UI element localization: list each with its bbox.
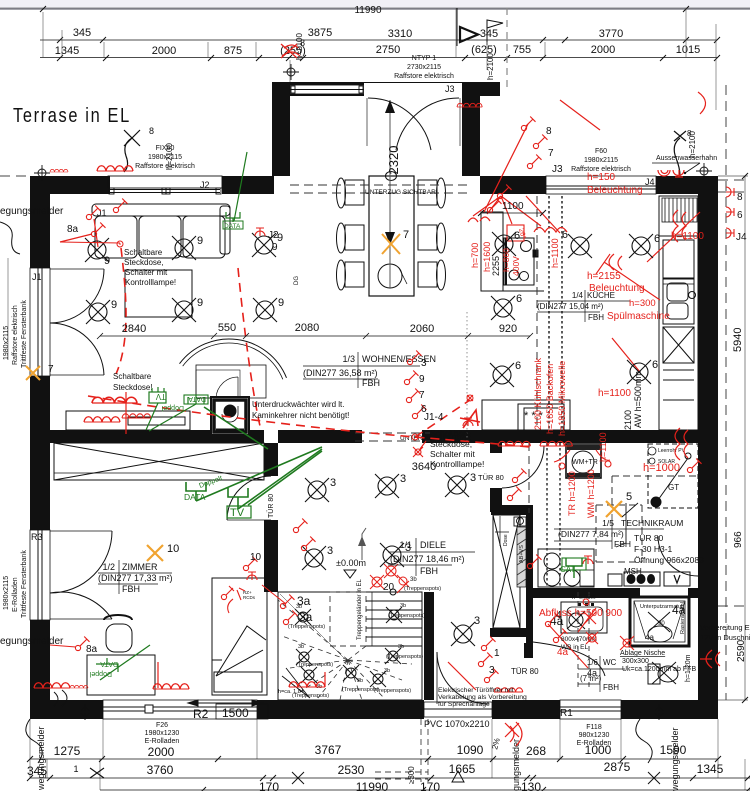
red symbol right bath	[700, 650, 720, 668]
svg-text:Doppel: Doppel	[161, 404, 184, 411]
bottom-right curve	[636, 719, 652, 763]
svg-text:Vorbereitung Einb: Vorbereitung Einb	[700, 623, 750, 632]
svg-text:h=2155: h=2155	[587, 271, 621, 282]
svg-text:h=2100: h=2100	[486, 53, 495, 80]
svg-text:6: 6	[652, 359, 658, 371]
green desk labels	[96, 645, 150, 680]
crosshair symbol left	[34, 165, 50, 181]
dining table	[369, 176, 414, 296]
red symbols kitchen top	[487, 199, 501, 213]
red switches aussenwasserhahn	[658, 170, 684, 177]
svg-text:WM+TR: WM+TR	[572, 459, 598, 466]
mid wall right part	[422, 430, 490, 443]
svg-text:Beleuchtung: Beleuchtung	[589, 283, 645, 294]
svg-text:FBH: FBH	[362, 378, 380, 388]
svg-text:7: 7	[48, 364, 54, 375]
svg-text:Schalter mit: Schalter mit	[430, 449, 476, 459]
left wall	[30, 176, 50, 268]
zimmer table	[98, 562, 173, 594]
svg-text:GT: GT	[668, 483, 679, 492]
svg-text:Raffstore elektrisch: Raffstore elektrisch	[12, 305, 19, 365]
plumbing dashed verticals hall	[529, 443, 560, 588]
red herd symbol	[460, 410, 480, 428]
svg-text:3: 3	[327, 545, 333, 557]
entrance protrusion top wall	[272, 82, 500, 96]
sofa	[92, 204, 230, 258]
technik/bath wall	[530, 588, 640, 598]
spot 7	[386, 607, 402, 623]
svg-text:h=2100: h=2100	[165, 143, 174, 170]
red switch chain J1-4	[407, 351, 421, 365]
svg-text:Kontrolllampe!: Kontrolllampe!	[430, 459, 484, 469]
h2100 wall lamp top-left	[124, 130, 140, 172]
svg-text:3: 3	[400, 473, 406, 485]
dim row3 line	[40, 57, 717, 59]
svg-text:ZIMMER: ZIMMER	[122, 562, 158, 572]
wavy row at hall top wall	[498, 441, 530, 446]
lamp living 1	[85, 238, 109, 262]
svg-text:J4: J4	[645, 177, 655, 187]
h2100 wall lamp top right	[674, 131, 686, 176]
svg-text:2730x2115: 2730x2115	[407, 64, 441, 71]
svg-text:h=1100: h=1100	[598, 388, 631, 399]
switch j2 right	[521, 117, 535, 131]
svg-text:Trittfeste Fensterbank: Trittfeste Fensterbank	[21, 550, 28, 618]
mid wall left part	[50, 430, 264, 443]
svg-text:3a: 3a	[297, 594, 311, 608]
red X bath right	[620, 636, 634, 650]
entrance protrusion left wall	[272, 82, 290, 176]
radiator bedroom bottom 2	[153, 684, 189, 689]
dining chairs right column	[418, 178, 446, 290]
hall/bath vertical wall	[526, 505, 533, 643]
svg-text:egungsmelder: egungsmelder	[0, 206, 64, 217]
switch cluster near hall door	[512, 469, 526, 483]
svg-text:WC: WC	[603, 658, 617, 667]
kitchen island counter	[481, 212, 544, 291]
svg-text:3875: 3875	[308, 27, 332, 39]
svg-text:2255: 2255	[491, 256, 501, 276]
svg-text:(Treppenspots): (Treppenspots)	[374, 688, 411, 694]
kitchen lower bench at mid wall	[482, 400, 570, 430]
svg-text:1275: 1275	[54, 744, 81, 758]
blue vorbereitung	[700, 623, 750, 642]
red leader bedroom window	[157, 662, 159, 688]
right wall	[698, 176, 718, 719]
svg-text:2100: 2100	[623, 410, 633, 430]
svg-text:2875: 2875	[604, 760, 631, 774]
spot 6	[385, 648, 401, 664]
svg-text:(Treppenspots): (Treppenspots)	[388, 613, 425, 619]
svg-text:1980x2115: 1980x2115	[584, 157, 618, 164]
treppenspots labels	[278, 603, 425, 699]
svg-text:DATA: DATA	[188, 395, 206, 402]
svg-text:Terrase in EL: Terrase in EL	[13, 103, 131, 126]
svg-text:5940: 5940	[732, 328, 744, 352]
crosshair symbol right	[696, 163, 712, 179]
svg-text:8: 8	[546, 126, 552, 137]
red solid leader lines	[60, 100, 700, 372]
svg-text:(DIN277 36,58 m²): (DIN277 36,58 m²)	[303, 368, 378, 378]
svg-text:h=1100: h=1100	[550, 238, 560, 268]
lamp kitchen 4	[492, 232, 516, 256]
svg-text:2000: 2000	[148, 745, 175, 759]
dim row C line	[100, 789, 750, 791]
svg-text:1980x1230: 1980x1230	[145, 730, 180, 737]
entrance door NTYP opening	[290, 85, 364, 94]
bottom wall segments	[30, 700, 103, 719]
svg-text:(Treppenspots): (Treppenspots)	[288, 624, 325, 630]
orange x technik	[606, 501, 622, 517]
stair bottom wall	[424, 592, 434, 700]
lamp hall 3	[445, 473, 469, 497]
svg-text:J1: J1	[32, 272, 42, 282]
svg-text:980x1230: 980x1230	[579, 732, 610, 739]
extension lines bottom	[30, 719, 745, 790]
svg-text:FBH: FBH	[122, 584, 140, 594]
svg-text:NTYP 1: NTYP 1	[412, 55, 436, 62]
svg-text:2000: 2000	[591, 44, 615, 56]
svg-text:TÜR 80: TÜR 80	[511, 667, 539, 676]
bottom-left curve	[26, 719, 42, 763]
svg-text:Rasieranschl.: Rasieranschl.	[680, 600, 686, 634]
svg-text:MSH: MSH	[624, 567, 642, 576]
svg-text:300x300: 300x300	[622, 658, 649, 665]
terrase in el	[13, 103, 131, 126]
red leader stairs	[262, 585, 286, 604]
svg-text:170: 170	[259, 780, 279, 791]
terrace dashed left	[0, 175, 30, 177]
svg-text:F-30 H3-1: F-30 H3-1	[634, 544, 673, 554]
red text schalter kontrolllampe mid	[412, 434, 418, 440]
svg-text:3: 3	[421, 358, 427, 369]
switch cluster living left	[86, 206, 100, 220]
bathtub	[561, 602, 607, 633]
coffee table	[125, 270, 192, 317]
bewegungsmelder pvc	[505, 722, 522, 746]
svg-text:Beleuchtung: Beleuchtung	[587, 185, 643, 196]
technik outside door arc	[658, 536, 698, 576]
svg-text:9: 9	[197, 235, 203, 247]
plumbing dashed verticals kitchen	[537, 196, 562, 430]
kitchen right counter	[659, 196, 698, 430]
green hall brackets	[186, 407, 322, 509]
svg-text:F26: F26	[156, 722, 168, 729]
svg-text:Unterdruckwächter wird lt.: Unterdruckwächter wird lt.	[252, 400, 344, 409]
svg-text:7: 7	[419, 390, 425, 401]
svg-text:h=700: h=700	[470, 243, 480, 268]
red crossed switch hall	[413, 441, 426, 457]
red wavy entrance	[494, 688, 523, 692]
radiator bedroom bottom 1	[34, 683, 70, 688]
svg-text:2080: 2080	[295, 322, 319, 334]
window F60	[546, 176, 656, 194]
orange x living left	[26, 366, 40, 380]
svg-text:1000: 1000	[585, 743, 612, 757]
switch cluster bedroom door top	[293, 519, 307, 533]
svg-text:(DIN277 17,33 m²): (DIN277 17,33 m²)	[98, 573, 173, 583]
svg-text:400V: 400V	[511, 256, 521, 276]
svg-text:10: 10	[250, 552, 262, 563]
svg-text:6: 6	[562, 229, 568, 241]
orange x bedroom	[147, 545, 163, 561]
svg-text:Spülmaschine: Spülmaschine	[607, 311, 670, 322]
R2 1500 dim	[188, 700, 262, 706]
red technik	[583, 556, 593, 564]
red switch hall dash endpoint	[467, 395, 473, 401]
svg-text:3310: 3310	[388, 28, 412, 40]
svg-text:11990: 11990	[356, 780, 389, 791]
bath dashed verticals	[578, 592, 589, 688]
red stair spots	[370, 564, 409, 593]
dim row A line	[30, 758, 718, 760]
svg-text:1345: 1345	[55, 45, 79, 57]
dotted line kitchen left	[466, 312, 468, 443]
svg-text:345: 345	[27, 764, 47, 778]
svg-text:1/4: 1/4	[572, 291, 584, 300]
svg-text:FBH: FBH	[420, 566, 438, 576]
svg-text:9: 9	[104, 255, 110, 267]
svg-text:Steckdose,: Steckdose,	[430, 439, 472, 449]
svg-text:3a: 3a	[299, 610, 313, 624]
red leader protrusion to sofa	[484, 124, 528, 212]
svg-text:170: 170	[420, 780, 440, 791]
svg-text:Treppengeländer in EL: Treppengeländer in EL	[357, 579, 363, 640]
stair right flight steps	[366, 592, 422, 646]
lamp living 4	[86, 300, 110, 324]
ablage nische	[620, 650, 696, 673]
svg-text:≥300: ≥300	[407, 766, 416, 784]
svg-text:7: 7	[403, 229, 409, 241]
svg-text:4a: 4a	[557, 647, 569, 658]
svg-text:TV: TV	[230, 507, 245, 519]
sockets right wall outside	[726, 187, 734, 197]
technikraum table	[558, 518, 683, 549]
svg-text:8: 8	[737, 192, 743, 203]
svg-text:Steckdose,: Steckdose,	[124, 258, 164, 267]
GT box	[648, 444, 698, 508]
svg-text:Leerrohr PV: Leerrohr PV	[658, 448, 686, 454]
stair winder steps dashed	[278, 594, 412, 700]
spot 4	[343, 665, 359, 681]
svg-text:Öffnung 966x2083: Öffnung 966x2083	[634, 555, 704, 565]
svg-text:9: 9	[197, 297, 203, 309]
technikraum dashed zone	[596, 476, 696, 562]
lamp living 2	[172, 236, 196, 260]
svg-text:Elektrischer Türöffner mit: Elektrischer Türöffner mit	[438, 687, 514, 694]
svg-text:1/3: 1/3	[342, 354, 355, 364]
svg-text:DATA: DATA	[100, 660, 118, 667]
window R1	[560, 700, 621, 719]
spot 2	[296, 649, 312, 665]
svg-text:R3: R3	[31, 532, 43, 542]
svg-text:3770: 3770	[599, 28, 623, 40]
fix60 label	[135, 145, 195, 170]
svg-text:Schaltbare: Schaltbare	[124, 248, 163, 257]
lamp hall 4	[302, 546, 326, 570]
lamp kitchen 2	[490, 363, 514, 387]
svg-text:6: 6	[516, 293, 522, 305]
blue unterdruckwaechter	[252, 400, 349, 420]
svg-text:875: 875	[224, 45, 242, 57]
hall-bedroom door arc	[227, 476, 271, 520]
svg-text:AW h=500mm: AW h=500mm	[633, 371, 643, 428]
radiator top-left	[50, 169, 68, 172]
lamp hall 5	[380, 543, 404, 567]
svg-text:20: 20	[383, 582, 395, 593]
bed	[212, 578, 267, 695]
bedroom/hall vertical wall upper	[264, 443, 278, 476]
blue tueroeffner	[438, 687, 527, 708]
svg-text:TR h=1200: TR h=1200	[567, 471, 577, 516]
svg-text:1/2: 1/2	[102, 562, 115, 572]
red sockets bedroom wall	[243, 557, 257, 571]
svg-text:2840: 2840	[122, 323, 146, 335]
svg-text:DIELE: DIELE	[420, 540, 446, 550]
svg-text:(Treppenspots): (Treppenspots)	[386, 654, 423, 660]
svg-text:9: 9	[111, 299, 117, 311]
lamp entry 2	[629, 234, 653, 258]
svg-text:h=2100: h=2100	[688, 131, 697, 158]
wc table	[580, 658, 619, 692]
svg-text:Schaltbare: Schaltbare	[113, 372, 152, 381]
svg-text:1500: 1500	[222, 706, 249, 720]
svg-text:345: 345	[73, 27, 91, 39]
left lower window vertical text	[3, 550, 28, 618]
svg-text:DATA: DATA	[184, 492, 206, 502]
svg-text:E-Rolladen: E-Rolladen	[145, 738, 180, 745]
svg-text:(DIN277 15,04 m²): (DIN277 15,04 m²)	[537, 302, 604, 311]
appliance row near wall	[608, 572, 690, 586]
svg-text:Trittfeste Fensterbank: Trittfeste Fensterbank	[21, 300, 28, 368]
svg-text:Steckdose!: Steckdose!	[113, 383, 153, 392]
svg-text:2000: 2000	[152, 45, 176, 57]
svg-text:Dose: Dose	[503, 534, 509, 546]
radiator protrusion	[281, 44, 300, 58]
svg-text:J2: J2	[268, 230, 279, 241]
dim 2840 550 2080 row	[97, 333, 533, 339]
bath counter technik side	[538, 549, 594, 587]
svg-text:2530: 2530	[338, 763, 365, 777]
red symbols bath	[545, 613, 559, 627]
svg-text:1: 1	[494, 648, 500, 659]
svg-text:1345: 1345	[697, 762, 724, 776]
svg-text:TÜR 80: TÜR 80	[267, 494, 275, 518]
svg-text:für Sprechanlage: für Sprechanlage	[438, 701, 490, 708]
svg-text:1/1: 1/1	[399, 540, 412, 550]
svg-text:gungsmelder: gungsmelder	[511, 739, 521, 791]
svg-text:3: 3	[474, 615, 480, 627]
svg-text:1665: 1665	[449, 762, 476, 776]
left bewegungsmelder leader line	[7, 258, 9, 360]
spot 1	[295, 609, 311, 625]
svg-text:268: 268	[526, 744, 546, 758]
hall tall cabinet	[491, 505, 526, 515]
svg-text:3b: 3b	[384, 668, 390, 674]
svg-text:966: 966	[733, 531, 744, 548]
protrusion corner detail	[283, 64, 299, 80]
Leerrohr PV + SOLAR	[648, 447, 656, 455]
svg-text:3b: 3b	[400, 603, 406, 609]
svg-text:8a: 8a	[67, 224, 79, 235]
lamp hall 6	[451, 622, 475, 646]
svg-text:3: 3	[470, 472, 476, 484]
stair central void	[330, 592, 366, 646]
window J1 swing arcs	[50, 269, 104, 375]
entrance sightline 2320	[389, 100, 391, 288]
svg-text:Schaltbare: Schaltbare	[430, 428, 471, 438]
svg-text:1/5: 1/5	[602, 518, 614, 528]
svg-text:UNTERZUG SICHTBAR: UNTERZUG SICHTBAR	[365, 189, 436, 196]
svg-text:1015: 1015	[676, 44, 700, 56]
sideboard at mid wall	[66, 411, 190, 430]
svg-text:Kontrolllampe!: Kontrolllampe!	[125, 278, 176, 287]
right top corner red	[698, 92, 706, 114]
svg-text:RCDs: RCDs	[243, 595, 256, 600]
svg-text:Raffstore elektrisch: Raffstore elektrisch	[394, 73, 454, 80]
svg-text:(DIN277 7,84 m²): (DIN277 7,84 m²)	[558, 529, 624, 539]
red bedroom left	[75, 637, 89, 651]
data bracket sofa	[226, 152, 247, 222]
spot 5	[370, 671, 386, 687]
svg-text:9: 9	[278, 297, 284, 309]
svg-text:6: 6	[737, 210, 743, 221]
svg-text:AB+VS: AB+VS	[519, 545, 525, 563]
svg-text:h=1000: h=1000	[643, 462, 680, 474]
svg-text:7: 7	[548, 148, 554, 159]
svg-text:1090: 1090	[457, 743, 484, 757]
svg-text:10: 10	[167, 543, 179, 555]
svg-text:1100: 1100	[502, 201, 524, 212]
green cat bath	[566, 558, 582, 578]
dim ticks top	[40, 6, 720, 61]
svg-text:(DIN277 18,46 m²): (DIN277 18,46 m²)	[390, 554, 465, 564]
lamp living 3	[252, 233, 276, 257]
lamp hall 2	[375, 474, 399, 498]
svg-text:11990: 11990	[354, 5, 382, 16]
red dashed switch line living-hall	[88, 248, 530, 447]
WM+TR box	[566, 444, 601, 478]
svg-text:2750: 2750	[376, 44, 400, 56]
svg-text:(7 m²): (7 m²)	[580, 674, 602, 683]
svg-text:3760: 3760	[147, 763, 174, 777]
hall entrance door arc	[437, 652, 489, 704]
svg-text:Aussenwasserhahn: Aussenwasserhahn	[656, 155, 717, 162]
svg-text:Schalter mit: Schalter mit	[125, 268, 168, 277]
radiator sideboard	[92, 397, 137, 403]
svg-text:90: 90	[658, 621, 665, 627]
svg-text:8: 8	[149, 126, 154, 136]
svg-text:Uk=ca.1200mm ab FFB: Uk=ca.1200mm ab FFB	[622, 666, 696, 673]
tuer f30 labels right	[634, 533, 704, 565]
lamp hall 1	[305, 478, 329, 502]
svg-text:R2: R2	[193, 707, 209, 721]
switch chain stairs left	[280, 595, 294, 609]
switch chain at J1 top	[113, 199, 127, 213]
entrance door PVC opening	[424, 702, 492, 717]
kitchen island red box	[507, 225, 524, 241]
svg-text:550: 550	[218, 322, 236, 334]
red leader kitchen sink	[596, 254, 660, 300]
left window vertical text	[3, 300, 28, 368]
desk chair	[104, 615, 132, 652]
svg-text:2100 Kühlschrank: 2100 Kühlschrank	[533, 357, 543, 430]
red socket cluster bed head	[221, 586, 245, 613]
radiator bedroom window	[289, 682, 325, 687]
extension lines top	[43, 8, 716, 110]
window J1	[30, 268, 50, 376]
svg-text:755: 755	[513, 44, 531, 56]
